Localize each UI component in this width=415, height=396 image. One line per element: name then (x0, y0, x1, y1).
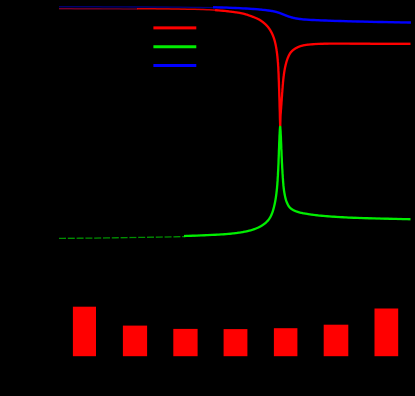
red curve dim left segment (59, 8, 138, 10)
legend blue line (153, 64, 196, 67)
bar 6 (324, 325, 349, 357)
bar 7 (375, 309, 399, 357)
blue curve dim left segment (59, 7, 214, 8)
bar 4 (224, 329, 248, 356)
green curve main (resonance peak) (184, 127, 411, 236)
legend green line (153, 45, 196, 48)
red curve mid thin segment (137, 9, 216, 11)
red curve main (resonance dip) (215, 10, 411, 128)
bar 2 (123, 326, 147, 357)
bar 3 (173, 329, 197, 356)
legend red line (153, 26, 196, 29)
bar 5 (274, 328, 298, 356)
green curve dim left segment (59, 237, 185, 239)
bar 1 (73, 307, 96, 357)
blue curve main (sigmoid step) (213, 7, 411, 22)
